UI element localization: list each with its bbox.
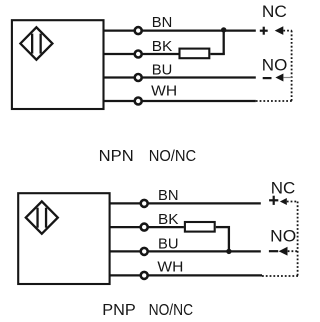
- junction on BU wire bottom: [226, 249, 231, 254]
- gray tail NO arrow: [283, 77, 291, 79]
- terminal circle BK bottom: [141, 224, 148, 231]
- wire BK (black) bottom: [110, 226, 184, 228]
- svg-text:NO/NC: NO/NC: [149, 148, 197, 165]
- dotted tail NO arrow bottom: [288, 250, 298, 252]
- terminal circle WH: [135, 98, 142, 105]
- dotted vertical link bottom: [297, 202, 299, 277]
- NC contact arrow: [275, 26, 284, 35]
- svg-text:BK: BK: [152, 38, 173, 55]
- dotted horizontal WH link bottom: [262, 275, 298, 277]
- svg-text:BU: BU: [158, 235, 179, 252]
- svg-text:NPN: NPN: [99, 148, 134, 165]
- plus terminal bottom: [269, 196, 278, 205]
- NO contact arrow: [275, 74, 283, 82]
- svg-text:NO: NO: [270, 227, 296, 246]
- resistor (load) top: [180, 49, 210, 59]
- svg-text:NO: NO: [262, 55, 288, 74]
- svg-text:WH: WH: [157, 259, 183, 276]
- terminal circle BU bottom: [141, 248, 148, 255]
- svg-text:NO/NC: NO/NC: [149, 302, 194, 319]
- wire BN (brown) bottom: [110, 202, 261, 204]
- wire BN (brown): [104, 29, 256, 31]
- dotted tail NC arrow: [283, 30, 292, 32]
- dotted horizontal WH link: [256, 100, 292, 102]
- NO contact arrow bottom: [279, 247, 288, 256]
- wire BK resistor to vertical: [210, 53, 224, 55]
- dotted vertical link: [291, 31, 293, 101]
- plus terminal: [260, 27, 268, 35]
- proximity sensor symbol (diamond) bottom: [26, 201, 58, 233]
- terminal circle WH bottom: [141, 272, 148, 279]
- junction on BN wire: [221, 27, 226, 32]
- terminal circle BN bottom: [141, 200, 148, 207]
- svg-text:BU: BU: [152, 62, 173, 79]
- sensor box U2: [18, 193, 109, 284]
- wire WH (white): [104, 100, 256, 102]
- terminal circle BU: [135, 74, 142, 81]
- minus terminal bottom: [269, 250, 278, 252]
- svg-text:BN: BN: [158, 187, 179, 204]
- sensor box U1: [12, 20, 104, 109]
- wire vertical BK to BN: [223, 30, 225, 55]
- terminal circle BK: [135, 51, 142, 58]
- wire BK (black): [104, 53, 179, 55]
- proximity sensor symbol (diamond): [20, 27, 52, 59]
- svg-text:WH: WH: [151, 83, 177, 100]
- svg-text:BN: BN: [152, 14, 173, 31]
- minus terminal: [263, 77, 272, 79]
- terminal circle BN: [135, 27, 142, 34]
- wire BU (blue) bottom: [110, 250, 261, 252]
- wire WH (white) bottom: [110, 274, 262, 276]
- svg-text:NC: NC: [262, 2, 287, 21]
- wire vertical BK to BU bottom: [228, 226, 230, 251]
- svg-text:PNP: PNP: [102, 302, 136, 319]
- resistor (load) bottom: [185, 222, 215, 232]
- dotted tail NC arrow bottom: [287, 201, 298, 203]
- wire BU (blue): [104, 76, 256, 78]
- wire BK resistor to vertical bottom: [216, 226, 230, 228]
- svg-text:BK: BK: [158, 211, 179, 228]
- NC contact arrow bottom: [280, 198, 287, 205]
- svg-text:NC: NC: [271, 179, 296, 198]
